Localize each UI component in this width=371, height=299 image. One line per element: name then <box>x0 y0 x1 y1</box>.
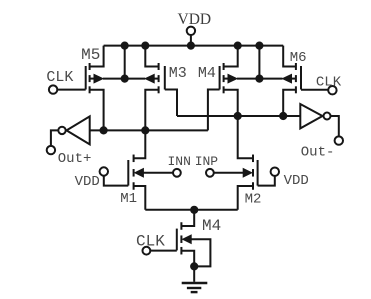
node source-ground junction <box>190 262 198 270</box>
wire VDD rail <box>104 45 284 47</box>
inverter U1 bubble <box>58 127 65 134</box>
transistor M4 center <box>219 66 221 90</box>
node tail junction <box>190 206 198 214</box>
ground <box>182 282 208 284</box>
node rail-M3 junction <box>141 42 149 50</box>
wire M1 bulk to INN <box>143 172 173 174</box>
terminal INP <box>206 169 214 177</box>
inverter U2 bubble <box>324 113 331 120</box>
svg-text:VDD: VDD <box>178 11 212 28</box>
transistor M1 <box>127 160 129 186</box>
wire M3 drain <box>145 46 158 67</box>
svg-text:CLK: CLK <box>316 75 342 91</box>
transistor M3 <box>164 66 166 90</box>
wire M6 gate to CLK right <box>301 89 328 91</box>
wire CLK left to M5 gate <box>58 89 86 91</box>
svg-text:VDD: VDD <box>75 174 100 190</box>
svg-text:M1: M1 <box>120 191 137 207</box>
wire M2 bulk to INP <box>214 172 243 174</box>
svg-text:Out-: Out- <box>301 144 335 160</box>
wire bulk right vertical <box>258 46 260 79</box>
transistor M2 <box>257 160 259 186</box>
node rail-bulkR junction <box>255 42 263 50</box>
wire U1 output to Out+ <box>51 130 58 146</box>
node bulk left junction <box>121 75 129 83</box>
wire M4 tail drain <box>181 210 194 226</box>
wire M3 bulk <box>125 78 146 80</box>
svg-text:CLK: CLK <box>46 69 73 86</box>
svg-text:M6: M6 <box>290 50 307 66</box>
wire ground stem <box>193 266 195 281</box>
terminal VDD top <box>187 27 195 35</box>
wire M5 bulk <box>103 78 125 80</box>
node bulk right junction <box>255 75 263 83</box>
node rail-VDD junction <box>187 42 195 50</box>
wire tail rail <box>145 209 237 211</box>
svg-text:M5: M5 <box>81 46 100 64</box>
transistor M6 <box>300 66 302 90</box>
node OutR-M6 junction <box>279 112 287 120</box>
terminal VDD right <box>271 168 279 176</box>
wire M4 drain <box>224 46 238 67</box>
wire M4 gate cross-couple <box>208 90 220 131</box>
terminal Out+ <box>47 146 55 154</box>
node rail-M4 junction <box>234 42 242 50</box>
wire M4 tail bulk loop <box>191 239 210 266</box>
svg-text:M2: M2 <box>245 191 262 207</box>
svg-text:INN: INN <box>167 154 190 169</box>
wire M4 tail source <box>181 251 194 267</box>
transistor M4 tail <box>176 229 178 251</box>
node OutR-column junction <box>234 112 242 120</box>
wire M6 drain <box>283 46 296 67</box>
wire M3 gate cross-couple <box>165 90 177 117</box>
wire node OutL <box>90 129 208 131</box>
inverter U2 <box>300 104 322 128</box>
transistor M5 <box>85 66 87 90</box>
terminal CLK bottom <box>143 247 151 255</box>
terminal VDD left <box>100 167 108 175</box>
wire VDD left to M1 gate <box>104 176 129 186</box>
svg-text:VDD: VDD <box>284 173 309 189</box>
svg-text:INP: INP <box>195 154 219 169</box>
wire U2 output to Out- <box>331 116 339 136</box>
wire node OutR <box>177 115 300 117</box>
terminal Out- <box>335 136 343 144</box>
wire M5 source <box>90 90 104 131</box>
wire M2 source <box>238 186 253 210</box>
node OutL-column junction <box>141 126 149 134</box>
node OutL-M5 junction <box>100 126 108 134</box>
node rail-bulkL junction <box>121 42 129 50</box>
wire M4 bulk <box>237 78 259 80</box>
wire VDD stem <box>190 35 192 46</box>
svg-text:CLK: CLK <box>136 232 165 250</box>
wire M6 source <box>283 90 296 116</box>
svg-text:M3: M3 <box>169 65 187 82</box>
wire M4 source to M2 drain <box>224 90 253 159</box>
wire M3 source to M1 drain <box>134 90 159 159</box>
svg-text:M4: M4 <box>202 217 221 235</box>
inverter U1 <box>67 116 90 144</box>
wire bulk left vertical <box>124 46 126 79</box>
wire M6 bulk <box>259 78 282 80</box>
terminal CLK right <box>328 86 336 94</box>
wire M1 source <box>134 186 146 210</box>
wire M5 drain <box>90 46 104 67</box>
terminal INN <box>173 169 181 177</box>
svg-text:Out+: Out+ <box>58 151 92 167</box>
wire VDD right to M2 gate <box>258 176 275 186</box>
terminal CLK left <box>49 85 57 93</box>
svg-text:M4: M4 <box>198 65 216 82</box>
wire CLK bottom to M4 gate <box>150 250 176 252</box>
